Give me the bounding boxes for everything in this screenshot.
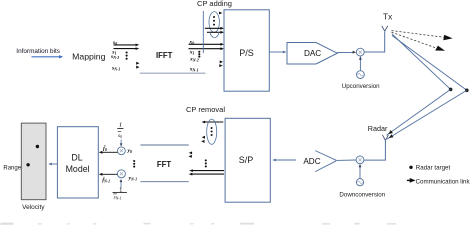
svg-text:IFFT: IFFT — [156, 51, 173, 60]
wire radar return beam 1 — [387, 89, 451, 135]
wire x0 arrow — [189, 43, 225, 46]
svg-text:sN-1: sN-1 — [114, 195, 122, 201]
svg-text:Mapping: Mapping — [72, 52, 105, 62]
block DL Model — [57, 127, 98, 198]
svg-text:P/S: P/S — [239, 48, 254, 58]
oscillator up — [357, 71, 365, 79]
node return arrowhead 1 — [388, 130, 393, 134]
svg-text:Range: Range — [3, 166, 21, 172]
block S/P — [225, 118, 270, 202]
antenna radar — [382, 135, 388, 141]
svg-text:Downconversion: Downconversion — [339, 191, 385, 198]
svg-text:Communication link: Communication link — [416, 178, 471, 185]
svg-text:DL: DL — [71, 152, 82, 162]
block range-velocity display — [21, 123, 46, 200]
svg-text:FFT: FFT — [157, 160, 172, 169]
wire CP adding vertical line — [202, 11, 204, 53]
svg-text:Radar target: Radar target — [416, 165, 451, 172]
node CP wrap arc — [210, 32, 219, 37]
block DAC — [287, 43, 337, 65]
wire dashed communication beam 1 — [392, 31, 447, 38]
node legend communication link — [407, 178, 416, 183]
node CP removal dots — [211, 127, 213, 136]
node CP removal stub arrowheads — [201, 136, 205, 143]
mixer down (circle with x) — [356, 156, 364, 164]
wire CP copy arrow 1 — [205, 27, 224, 30]
svg-text:ADC: ADC — [303, 157, 320, 166]
wire radar return beam 2 — [387, 90, 467, 139]
svg-text:DAC: DAC — [304, 49, 321, 58]
node vertical dots x side — [198, 51, 200, 58]
node return arrowhead 2 — [389, 134, 394, 138]
wire stub arrowheads out of FFT — [189, 151, 193, 158]
wire radar antenna to down mixer — [364, 140, 385, 160]
wire S/P to FFT arrow 1 — [189, 169, 224, 172]
svg-text:Model: Model — [66, 164, 90, 174]
node radar target dot 2 — [465, 89, 469, 93]
wire osc to mixer up — [359, 56, 362, 71]
wire radar beam to target 2 — [392, 36, 467, 91]
svg-text:s0: s0 — [118, 133, 122, 139]
wire S/P to FFT arrow 2 — [189, 173, 224, 176]
wire ADC to S/P — [272, 159, 296, 162]
wire 1/s0 into multiplier — [120, 140, 123, 147]
oscillator down — [356, 179, 363, 186]
svg-text:Information bits: Information bits — [16, 48, 60, 55]
wire P/S to DAC — [269, 51, 286, 54]
wire x1 arrow — [189, 47, 225, 50]
svg-text:CP adding: CP adding — [197, 0, 232, 8]
wire DL to display arrow — [48, 163, 57, 166]
node dots between S/P and FFT — [205, 159, 207, 167]
mixer up (circle with x) — [356, 48, 364, 56]
svg-text:1: 1 — [119, 122, 122, 129]
wire stub arrows before IFFT — [136, 62, 139, 69]
multiplier circle 2 — [117, 170, 125, 178]
multiplier circle 1 — [118, 147, 126, 155]
svg-text:Radar: Radar — [368, 124, 388, 133]
svg-text:S/P: S/P — [239, 155, 254, 165]
node dots between multipliers — [133, 160, 135, 168]
wire yN-1 line from FFT — [140, 181, 188, 183]
wire CP removal discard arrow — [202, 121, 224, 124]
node faint caption remnants — [1, 223, 397, 225]
block P/S — [224, 10, 269, 91]
node legend radar target — [409, 166, 412, 169]
antenna Tx — [382, 26, 388, 31]
wire stub arrows into P/S — [219, 60, 223, 67]
svg-text:CP removal: CP removal — [186, 105, 225, 114]
node CP adding dots — [213, 16, 215, 26]
wire f0 arrow to DL — [99, 151, 118, 154]
node CP adding loop ellipse — [209, 12, 219, 33]
node CP removal loop ellipse — [207, 119, 217, 144]
wire s0 arrow — [114, 44, 140, 47]
svg-text:Velocity: Velocity — [22, 204, 45, 211]
node display dot 1 — [36, 145, 39, 148]
svg-text:Upconversion: Upconversion — [342, 83, 380, 90]
wire osc to mixer down — [359, 164, 362, 179]
wire s1 arrow — [114, 47, 140, 50]
node CP adding loop arrowhead — [219, 12, 223, 15]
wire down mixer to ADC — [337, 159, 357, 161]
wire information-bits arrow — [32, 55, 64, 58]
wire radar beam to target 1 — [392, 34, 451, 89]
wire fN-1 arrow to DL — [99, 173, 118, 176]
block ADC (open chevron) — [315, 151, 336, 172]
node radar target dot 1 — [449, 88, 453, 92]
node display dot 2 — [26, 163, 29, 166]
wire DAC to up mixer — [337, 51, 356, 54]
wire sN-1 long line — [140, 72, 206, 74]
wire mixer to Tx corner — [364, 32, 385, 53]
wire dashed communication beam 2 — [392, 32, 438, 48]
wire y0 line from FFT — [140, 144, 188, 146]
svg-text:Tx: Tx — [383, 12, 393, 22]
wire 1/sN-1 into multiplier 2 — [120, 179, 123, 189]
wire CP copy arrow 2 — [207, 31, 224, 34]
node vertical dots left — [126, 51, 128, 59]
